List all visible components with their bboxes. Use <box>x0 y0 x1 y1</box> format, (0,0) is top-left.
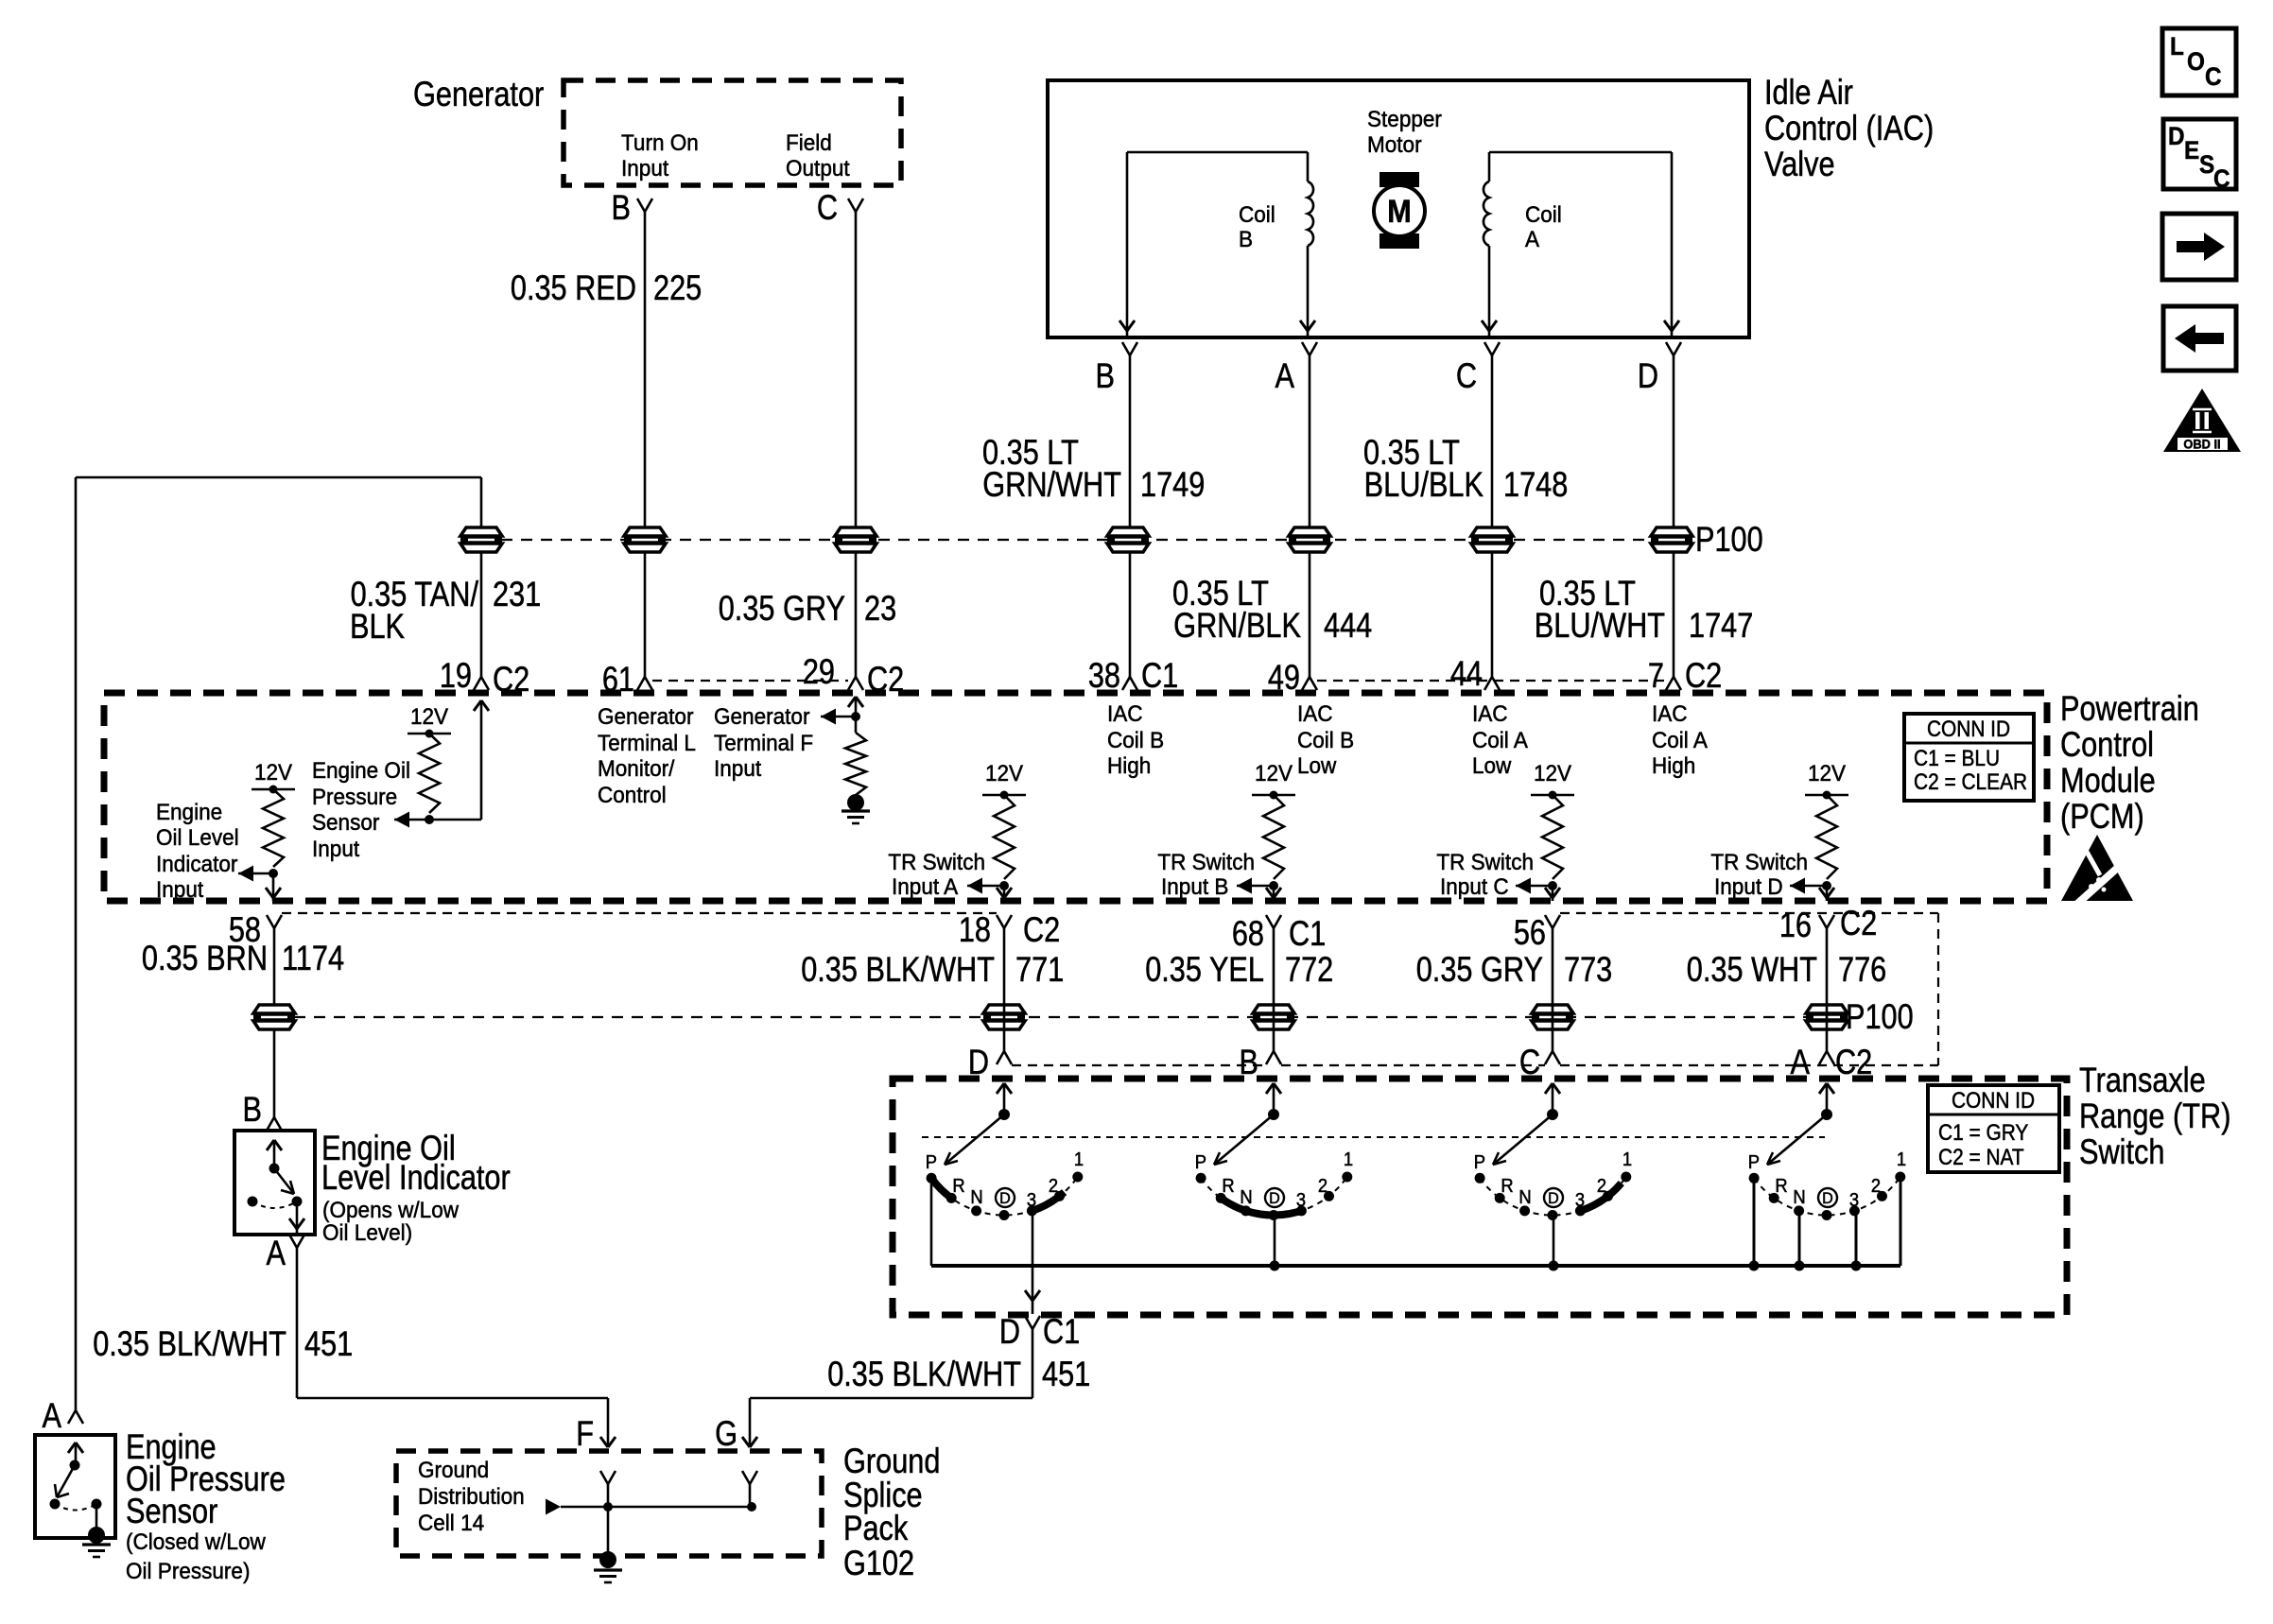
svg-text:Control: Control <box>2060 725 2154 764</box>
rotary switch 2 (TR input B) <box>1195 1083 1353 1271</box>
svg-text:38: 38 <box>1088 656 1120 695</box>
svg-text:P100: P100 <box>1846 997 1914 1036</box>
IAC valve box <box>1048 80 1749 337</box>
svg-text:R: R <box>952 1176 964 1197</box>
svg-text:A: A <box>267 1234 286 1272</box>
terminal C TR <box>1519 1043 1560 1081</box>
svg-text:Terminal L: Terminal L <box>598 730 696 755</box>
svg-text:BLU/BLK: BLU/BLK <box>1364 465 1484 504</box>
svg-text:P100: P100 <box>1695 520 1763 559</box>
terminal G G102 <box>715 1414 737 1453</box>
svg-text:C1: C1 <box>1289 914 1326 953</box>
svg-text:44: 44 <box>1450 654 1483 693</box>
svg-text:1747: 1747 <box>1689 606 1753 645</box>
TR switch box <box>893 1079 2067 1315</box>
resistor engine oil pressure sensor input <box>394 700 489 828</box>
ESD sensitive symbol <box>2061 835 2133 905</box>
svg-text:R: R <box>1501 1176 1513 1197</box>
svg-text:0.35 BLK/WHT: 0.35 BLK/WHT <box>93 1324 286 1363</box>
pin 18 C2 PCM <box>959 910 1060 949</box>
wire LT BLU/WHT 1747 <box>1673 355 1675 677</box>
label 0.35 GRY 23 <box>719 589 896 628</box>
svg-text:S: S <box>2199 151 2214 179</box>
svg-text:GRN/BLK: GRN/BLK <box>1173 606 1301 645</box>
ground distribution label <box>418 1457 525 1535</box>
svg-text:Input: Input <box>621 155 669 181</box>
terminal F fork G102 <box>600 1471 616 1507</box>
svg-text:D: D <box>1822 1189 1833 1207</box>
label 0.35 WHT 776 <box>1687 950 1886 989</box>
rotary switch 3 (TR input C) <box>1474 1083 1632 1271</box>
svg-text:Low: Low <box>1297 752 1337 778</box>
connector face dashes PCM bottom <box>282 913 1938 1065</box>
svg-text:Module: Module <box>2060 761 2156 800</box>
PCM CONN ID table <box>1904 714 2034 801</box>
pin 49 PCM <box>1268 658 1317 697</box>
svg-text:O: O <box>2187 48 2205 76</box>
svg-text:TR Switch: TR Switch <box>1157 849 1255 874</box>
svg-text:12V: 12V <box>254 759 292 785</box>
svg-text:Engine: Engine <box>156 799 222 824</box>
ground splice pack box <box>396 1451 822 1556</box>
TR CONN ID table <box>1928 1085 2059 1172</box>
svg-text:Oil Pressure): Oil Pressure) <box>126 1558 250 1583</box>
resistor TR switch input D <box>1790 760 1848 901</box>
svg-text:2: 2 <box>1597 1176 1606 1197</box>
svg-text:Pack: Pack <box>843 1509 909 1547</box>
svg-text:(PCM): (PCM) <box>2060 797 2144 836</box>
svg-text:CONN ID: CONN ID <box>1952 1088 2035 1114</box>
svg-text:C: C <box>2213 165 2230 193</box>
svg-text:12V: 12V <box>1534 760 1571 786</box>
svg-text:Generator: Generator <box>598 703 694 729</box>
svg-text:Low: Low <box>1472 752 1512 778</box>
rotary switch 1 (TR input D) <box>926 1083 1084 1314</box>
pin 29 C2 PCM <box>803 652 904 699</box>
svg-text:Valve: Valve <box>1764 145 1835 183</box>
pin 56 PCM <box>1514 913 1560 952</box>
wire BRN 1174 <box>273 928 276 1117</box>
svg-text:61: 61 <box>602 660 634 699</box>
PCM box <box>104 693 2047 901</box>
svg-text:B: B <box>612 188 631 227</box>
label IAC coil B low <box>1297 700 1354 778</box>
svg-text:D: D <box>1269 1189 1280 1207</box>
IAC valve label <box>1764 73 1934 183</box>
ground splice pack label <box>843 1442 940 1582</box>
svg-text:772: 772 <box>1285 950 1333 989</box>
pin 58 PCM <box>229 910 282 949</box>
svg-text:Distribution: Distribution <box>418 1483 525 1509</box>
icon OBD II <box>2163 389 2241 452</box>
label 0.35 LT GRN/WHT 1749 <box>982 433 1205 504</box>
svg-text:Monitor/: Monitor/ <box>598 755 675 781</box>
pin 38 C1 PCM <box>1088 656 1178 695</box>
icon arrow right <box>2162 214 2236 280</box>
svg-text:F: F <box>576 1414 594 1453</box>
svg-text:23: 23 <box>864 589 896 628</box>
svg-text:0.35 BLK/WHT: 0.35 BLK/WHT <box>801 950 995 989</box>
svg-text:C: C <box>2205 63 2222 91</box>
svg-text:2: 2 <box>1049 1176 1058 1197</box>
svg-text:Powertrain: Powertrain <box>2060 689 2199 728</box>
svg-text:0.35 WHT: 0.35 WHT <box>1687 950 1817 989</box>
ground distribution bus <box>546 1499 756 1515</box>
svg-text:R: R <box>1775 1176 1787 1197</box>
svg-text:M: M <box>1387 194 1411 230</box>
engine oil pressure sensor label <box>126 1427 286 1530</box>
svg-text:P: P <box>1195 1152 1206 1173</box>
terminal A engine oil pressure sensor <box>43 1396 83 1435</box>
terminal C generator <box>817 188 863 227</box>
svg-text:Switch: Switch <box>2079 1132 2164 1171</box>
label engine oil level indicator input <box>156 799 239 902</box>
svg-text:Control: Control <box>598 782 667 807</box>
label TR switch input C <box>1436 849 1534 899</box>
svg-text:Input: Input <box>714 755 762 781</box>
svg-text:12V: 12V <box>985 760 1023 786</box>
svg-text:Input: Input <box>156 876 204 902</box>
engine oil level indicator box <box>234 1131 315 1235</box>
svg-text:Coil B: Coil B <box>1297 727 1354 752</box>
svg-text:Output: Output <box>786 155 850 181</box>
ground G102 <box>594 1507 622 1582</box>
label 0.35 GRY 773 <box>1416 950 1613 989</box>
pin 19 C2 PCM <box>440 656 529 699</box>
label opens w/low oil level <box>322 1197 460 1245</box>
svg-text:1: 1 <box>1897 1149 1906 1170</box>
label IAC coil A high <box>1652 700 1708 778</box>
pin 68 C1 PCM <box>1232 914 1326 953</box>
svg-text:49: 49 <box>1268 658 1300 697</box>
motor M symbol <box>1374 172 1425 249</box>
svg-text:C1: C1 <box>1141 656 1178 695</box>
svg-text:P: P <box>1474 1152 1485 1173</box>
terminal F G102 <box>576 1414 594 1453</box>
svg-text:B: B <box>243 1090 262 1129</box>
svg-text:Input A: Input A <box>892 873 958 899</box>
generator Field Output label <box>786 130 850 181</box>
svg-text:G: G <box>715 1414 737 1453</box>
label TR switch input B <box>1157 849 1255 899</box>
wire GRY 773 <box>1552 928 1554 1051</box>
wire BLK/WHT 451 (TR to G102) <box>742 1329 1032 1447</box>
engine oil level indicator switch <box>248 1140 305 1235</box>
svg-text:N: N <box>1518 1187 1531 1208</box>
svg-text:Cell 14: Cell 14 <box>418 1510 484 1535</box>
svg-text:E: E <box>2184 137 2199 164</box>
generator box <box>564 80 901 185</box>
svg-text:18: 18 <box>959 910 991 949</box>
connector face dashes PCM top <box>652 680 1666 682</box>
svg-text:Stepper: Stepper <box>1367 106 1442 131</box>
svg-text:B: B <box>1239 226 1253 251</box>
icon arrow left <box>2163 306 2236 371</box>
svg-text:Coil: Coil <box>1239 201 1275 227</box>
label 0.35 BRN 1174 <box>142 939 344 977</box>
svg-text:451: 451 <box>304 1324 353 1363</box>
PCM label <box>2060 689 2199 836</box>
rotary switch 4 (TR input A) <box>1748 1083 1906 1271</box>
svg-text:Coil: Coil <box>1525 201 1562 227</box>
wire LT BLU/BLK 1748 <box>1491 355 1494 677</box>
svg-text:Motor: Motor <box>1367 131 1422 157</box>
label closed w/low oil pressure <box>126 1529 267 1583</box>
terminal A C2 TR <box>1791 1043 1873 1081</box>
svg-text:Turn On: Turn On <box>621 130 699 155</box>
svg-text:2: 2 <box>1871 1176 1881 1197</box>
svg-text:3: 3 <box>1575 1190 1585 1211</box>
wire RED 225 <box>644 212 647 677</box>
generator label <box>413 75 544 113</box>
svg-text:29: 29 <box>803 652 835 691</box>
svg-text:IAC: IAC <box>1107 700 1143 726</box>
label 0.35 RED 225 <box>511 268 702 307</box>
svg-text:Control (IAC): Control (IAC) <box>1764 109 1934 147</box>
engine oil pressure sensor box <box>35 1435 115 1538</box>
resistor TR switch input A <box>967 760 1026 901</box>
svg-text:TR Switch: TR Switch <box>1710 849 1808 874</box>
coil A <box>1482 152 1679 337</box>
svg-text:12V: 12V <box>1255 760 1293 786</box>
label 0.35 LT BLU/WHT 1747 <box>1535 574 1754 645</box>
terminal C IAC <box>1456 342 1500 396</box>
svg-text:Level Indicator: Level Indicator <box>321 1158 511 1197</box>
svg-text:G102: G102 <box>843 1544 914 1582</box>
svg-text:Input: Input <box>312 836 360 861</box>
svg-text:C1 = GRY: C1 = GRY <box>1938 1120 2028 1146</box>
label 0.35 TAN/BLK 231 <box>350 575 541 646</box>
svg-text:C2: C2 <box>1685 656 1722 695</box>
svg-text:P: P <box>926 1152 937 1173</box>
svg-text:A: A <box>43 1396 62 1435</box>
svg-text:IAC: IAC <box>1652 700 1688 726</box>
svg-text:Oil Level): Oil Level) <box>322 1219 412 1245</box>
svg-text:0.35 YEL: 0.35 YEL <box>1145 950 1264 989</box>
icon LOC <box>2162 28 2236 95</box>
svg-text:High: High <box>1107 752 1151 778</box>
svg-text:C2: C2 <box>1840 904 1877 942</box>
coil B label <box>1239 201 1275 251</box>
wire YEL 772 <box>1273 928 1275 1051</box>
generator terminal F input circuit <box>821 697 870 823</box>
pin 16 C2 PCM <box>1779 904 1877 944</box>
svg-text:771: 771 <box>1015 950 1064 989</box>
svg-text:Idle Air: Idle Air <box>1764 73 1853 112</box>
svg-text:451: 451 <box>1042 1355 1090 1393</box>
svg-text:Sensor: Sensor <box>126 1492 217 1530</box>
wire BLK/WHT 451 (indicator to G102) <box>297 1248 616 1447</box>
label 0.35 LT GRN/BLK 444 <box>1172 574 1372 645</box>
svg-text:444: 444 <box>1324 606 1372 645</box>
svg-text:1748: 1748 <box>1503 465 1568 504</box>
terminal D IAC <box>1638 342 1681 396</box>
svg-text:Field: Field <box>786 130 832 155</box>
pin 44 PCM <box>1450 654 1500 693</box>
resistor TR switch input B <box>1237 760 1295 901</box>
svg-text:0.35 BLK/WHT: 0.35 BLK/WHT <box>827 1355 1021 1393</box>
label engine oil pressure sensor input <box>312 757 410 861</box>
svg-text:Generator: Generator <box>413 75 544 113</box>
svg-text:D: D <box>999 1189 1011 1207</box>
svg-text:C: C <box>1456 356 1477 395</box>
svg-text:C2 = CLEAR: C2 = CLEAR <box>1914 769 2027 795</box>
svg-text:C1 = BLU: C1 = BLU <box>1914 746 2000 771</box>
connector face dashes TR top <box>1012 1064 1938 1066</box>
wire WHT 776 <box>1826 928 1829 1051</box>
svg-text:BLU/WHT: BLU/WHT <box>1535 606 1665 645</box>
svg-text:Engine Oil: Engine Oil <box>312 757 410 783</box>
svg-text:TR Switch: TR Switch <box>1436 849 1534 874</box>
svg-text:773: 773 <box>1564 950 1612 989</box>
terminal G fork G102 <box>742 1471 757 1507</box>
svg-text:C2: C2 <box>493 660 529 699</box>
svg-text:IAC: IAC <box>1297 700 1333 726</box>
svg-text:C2 = NAT: C2 = NAT <box>1938 1145 2024 1170</box>
TR common bus wire <box>931 1264 1900 1268</box>
svg-text:Generator: Generator <box>714 703 810 729</box>
svg-text:Oil Level: Oil Level <box>156 824 239 850</box>
svg-text:68: 68 <box>1232 914 1264 953</box>
connector P100 top row <box>460 520 1763 559</box>
svg-text:Coil B: Coil B <box>1107 727 1164 752</box>
svg-text:BLK: BLK <box>350 607 405 646</box>
wire LT GRN/BLK 444 <box>1309 355 1311 677</box>
svg-text:19: 19 <box>440 656 472 695</box>
svg-text:225: 225 <box>653 268 702 307</box>
svg-text:1174: 1174 <box>282 939 344 977</box>
resistor TR switch input C <box>1516 760 1574 901</box>
label generator terminal L monitor/control <box>598 703 696 807</box>
svg-text:P: P <box>1748 1152 1760 1173</box>
svg-text:C2: C2 <box>867 660 904 699</box>
svg-text:D: D <box>1548 1189 1559 1207</box>
svg-text:0.35 GRY: 0.35 GRY <box>719 589 845 628</box>
label 0.35 BLK/WHT 451 left <box>93 1324 353 1363</box>
ground engine oil pressure sensor <box>82 1527 111 1557</box>
svg-text:C: C <box>817 188 838 227</box>
TR switch label <box>2079 1061 2230 1171</box>
generator Turn On Input label <box>621 130 699 181</box>
label TR switch input A <box>888 849 985 899</box>
terminal B TR <box>1240 1043 1281 1081</box>
svg-text:0.35 BRN: 0.35 BRN <box>142 939 268 977</box>
svg-text:Input D: Input D <box>1714 873 1783 899</box>
stepper motor label <box>1367 106 1442 157</box>
label 0.35 BLK/WHT 451 right <box>827 1355 1090 1393</box>
svg-text:3: 3 <box>1027 1190 1036 1211</box>
svg-text:Range (TR): Range (TR) <box>2079 1097 2230 1135</box>
svg-text:N: N <box>1793 1187 1805 1208</box>
svg-text:Sensor: Sensor <box>312 809 380 835</box>
svg-text:2: 2 <box>1318 1176 1327 1197</box>
svg-text:TR Switch: TR Switch <box>888 849 985 874</box>
wire LT GRN/WHT 1749 <box>1129 355 1132 677</box>
svg-text:D: D <box>2168 123 2185 150</box>
svg-text:Input C: Input C <box>1440 873 1509 899</box>
wire BLK/WHT 771 <box>1003 928 1006 1051</box>
svg-text:C2: C2 <box>1023 910 1060 949</box>
terminal D C1 TR bottom <box>999 1312 1080 1351</box>
label 0.35 YEL 772 <box>1145 950 1333 989</box>
terminal D TR <box>968 1043 1012 1081</box>
svg-text:D: D <box>999 1312 1020 1351</box>
svg-text:C1: C1 <box>1043 1312 1080 1351</box>
svg-text:CONN ID: CONN ID <box>1927 717 2010 742</box>
label IAC coil A low <box>1472 700 1528 778</box>
wire TAN/BLK 231 <box>76 477 481 1410</box>
coil B <box>1119 152 1315 337</box>
svg-text:16: 16 <box>1779 906 1812 944</box>
svg-text:12V: 12V <box>1808 760 1846 786</box>
terminal B engine oil level indicator <box>243 1090 282 1131</box>
label 0.35 LT BLU/BLK 1748 <box>1363 433 1568 504</box>
svg-text:R: R <box>1222 1176 1234 1197</box>
svg-text:3: 3 <box>1296 1190 1306 1211</box>
svg-text:IAC: IAC <box>1472 700 1508 726</box>
icon DESC <box>2163 119 2236 193</box>
pin 61 PCM <box>602 660 652 699</box>
terminal A IAC <box>1275 342 1317 396</box>
svg-text:D: D <box>1638 356 1658 395</box>
svg-text:Indicator: Indicator <box>156 851 238 876</box>
coil A label <box>1525 201 1562 251</box>
svg-text:Terminal F: Terminal F <box>714 730 813 755</box>
resistor engine oil level indicator input <box>238 759 295 901</box>
wire GRY 23 <box>855 212 858 677</box>
svg-text:Input B: Input B <box>1161 873 1228 899</box>
svg-text:N: N <box>1240 1187 1252 1208</box>
svg-text:1: 1 <box>1622 1149 1632 1170</box>
label IAC coil B high <box>1107 700 1164 778</box>
terminal B generator <box>612 188 652 227</box>
svg-text:0.35 GRY: 0.35 GRY <box>1416 950 1543 989</box>
label 0.35 BLK/WHT 771 <box>801 950 1064 989</box>
svg-text:L: L <box>2170 33 2184 60</box>
svg-text:B: B <box>1096 356 1115 395</box>
svg-text:A: A <box>1525 226 1539 251</box>
engine oil level indicator label <box>321 1129 511 1197</box>
engine oil pressure sensor switch <box>50 1443 102 1531</box>
svg-text:OBD II: OBD II <box>2183 437 2220 451</box>
svg-text:Pressure: Pressure <box>312 784 397 809</box>
svg-text:231: 231 <box>493 575 541 613</box>
label TR switch input D <box>1710 849 1808 899</box>
svg-text:Coil A: Coil A <box>1652 727 1708 752</box>
svg-text:776: 776 <box>1838 950 1886 989</box>
svg-text:N: N <box>970 1187 982 1208</box>
svg-text:1: 1 <box>1344 1149 1353 1170</box>
svg-text:1749: 1749 <box>1140 465 1205 504</box>
svg-text:56: 56 <box>1514 913 1546 952</box>
svg-text:GRN/WHT: GRN/WHT <box>982 465 1121 504</box>
svg-text:A: A <box>1275 356 1295 395</box>
svg-text:(Opens w/Low: (Opens w/Low <box>322 1197 460 1222</box>
svg-text:(Closed w/Low: (Closed w/Low <box>126 1529 267 1554</box>
terminal A engine oil level indicator <box>267 1234 304 1272</box>
svg-text:0.35 RED: 0.35 RED <box>511 268 636 307</box>
svg-text:Ground: Ground <box>418 1457 489 1482</box>
svg-text:Coil A: Coil A <box>1472 727 1528 752</box>
svg-text:3: 3 <box>1849 1190 1859 1211</box>
pin 7 C2 PCM <box>1648 656 1722 695</box>
svg-text:7: 7 <box>1648 656 1664 695</box>
svg-text:High: High <box>1652 752 1695 778</box>
terminal B IAC <box>1096 342 1137 396</box>
label generator terminal F input <box>714 703 813 781</box>
connector P100 bottom row <box>253 997 1914 1036</box>
mechanical link dashed line <box>922 1136 1825 1138</box>
